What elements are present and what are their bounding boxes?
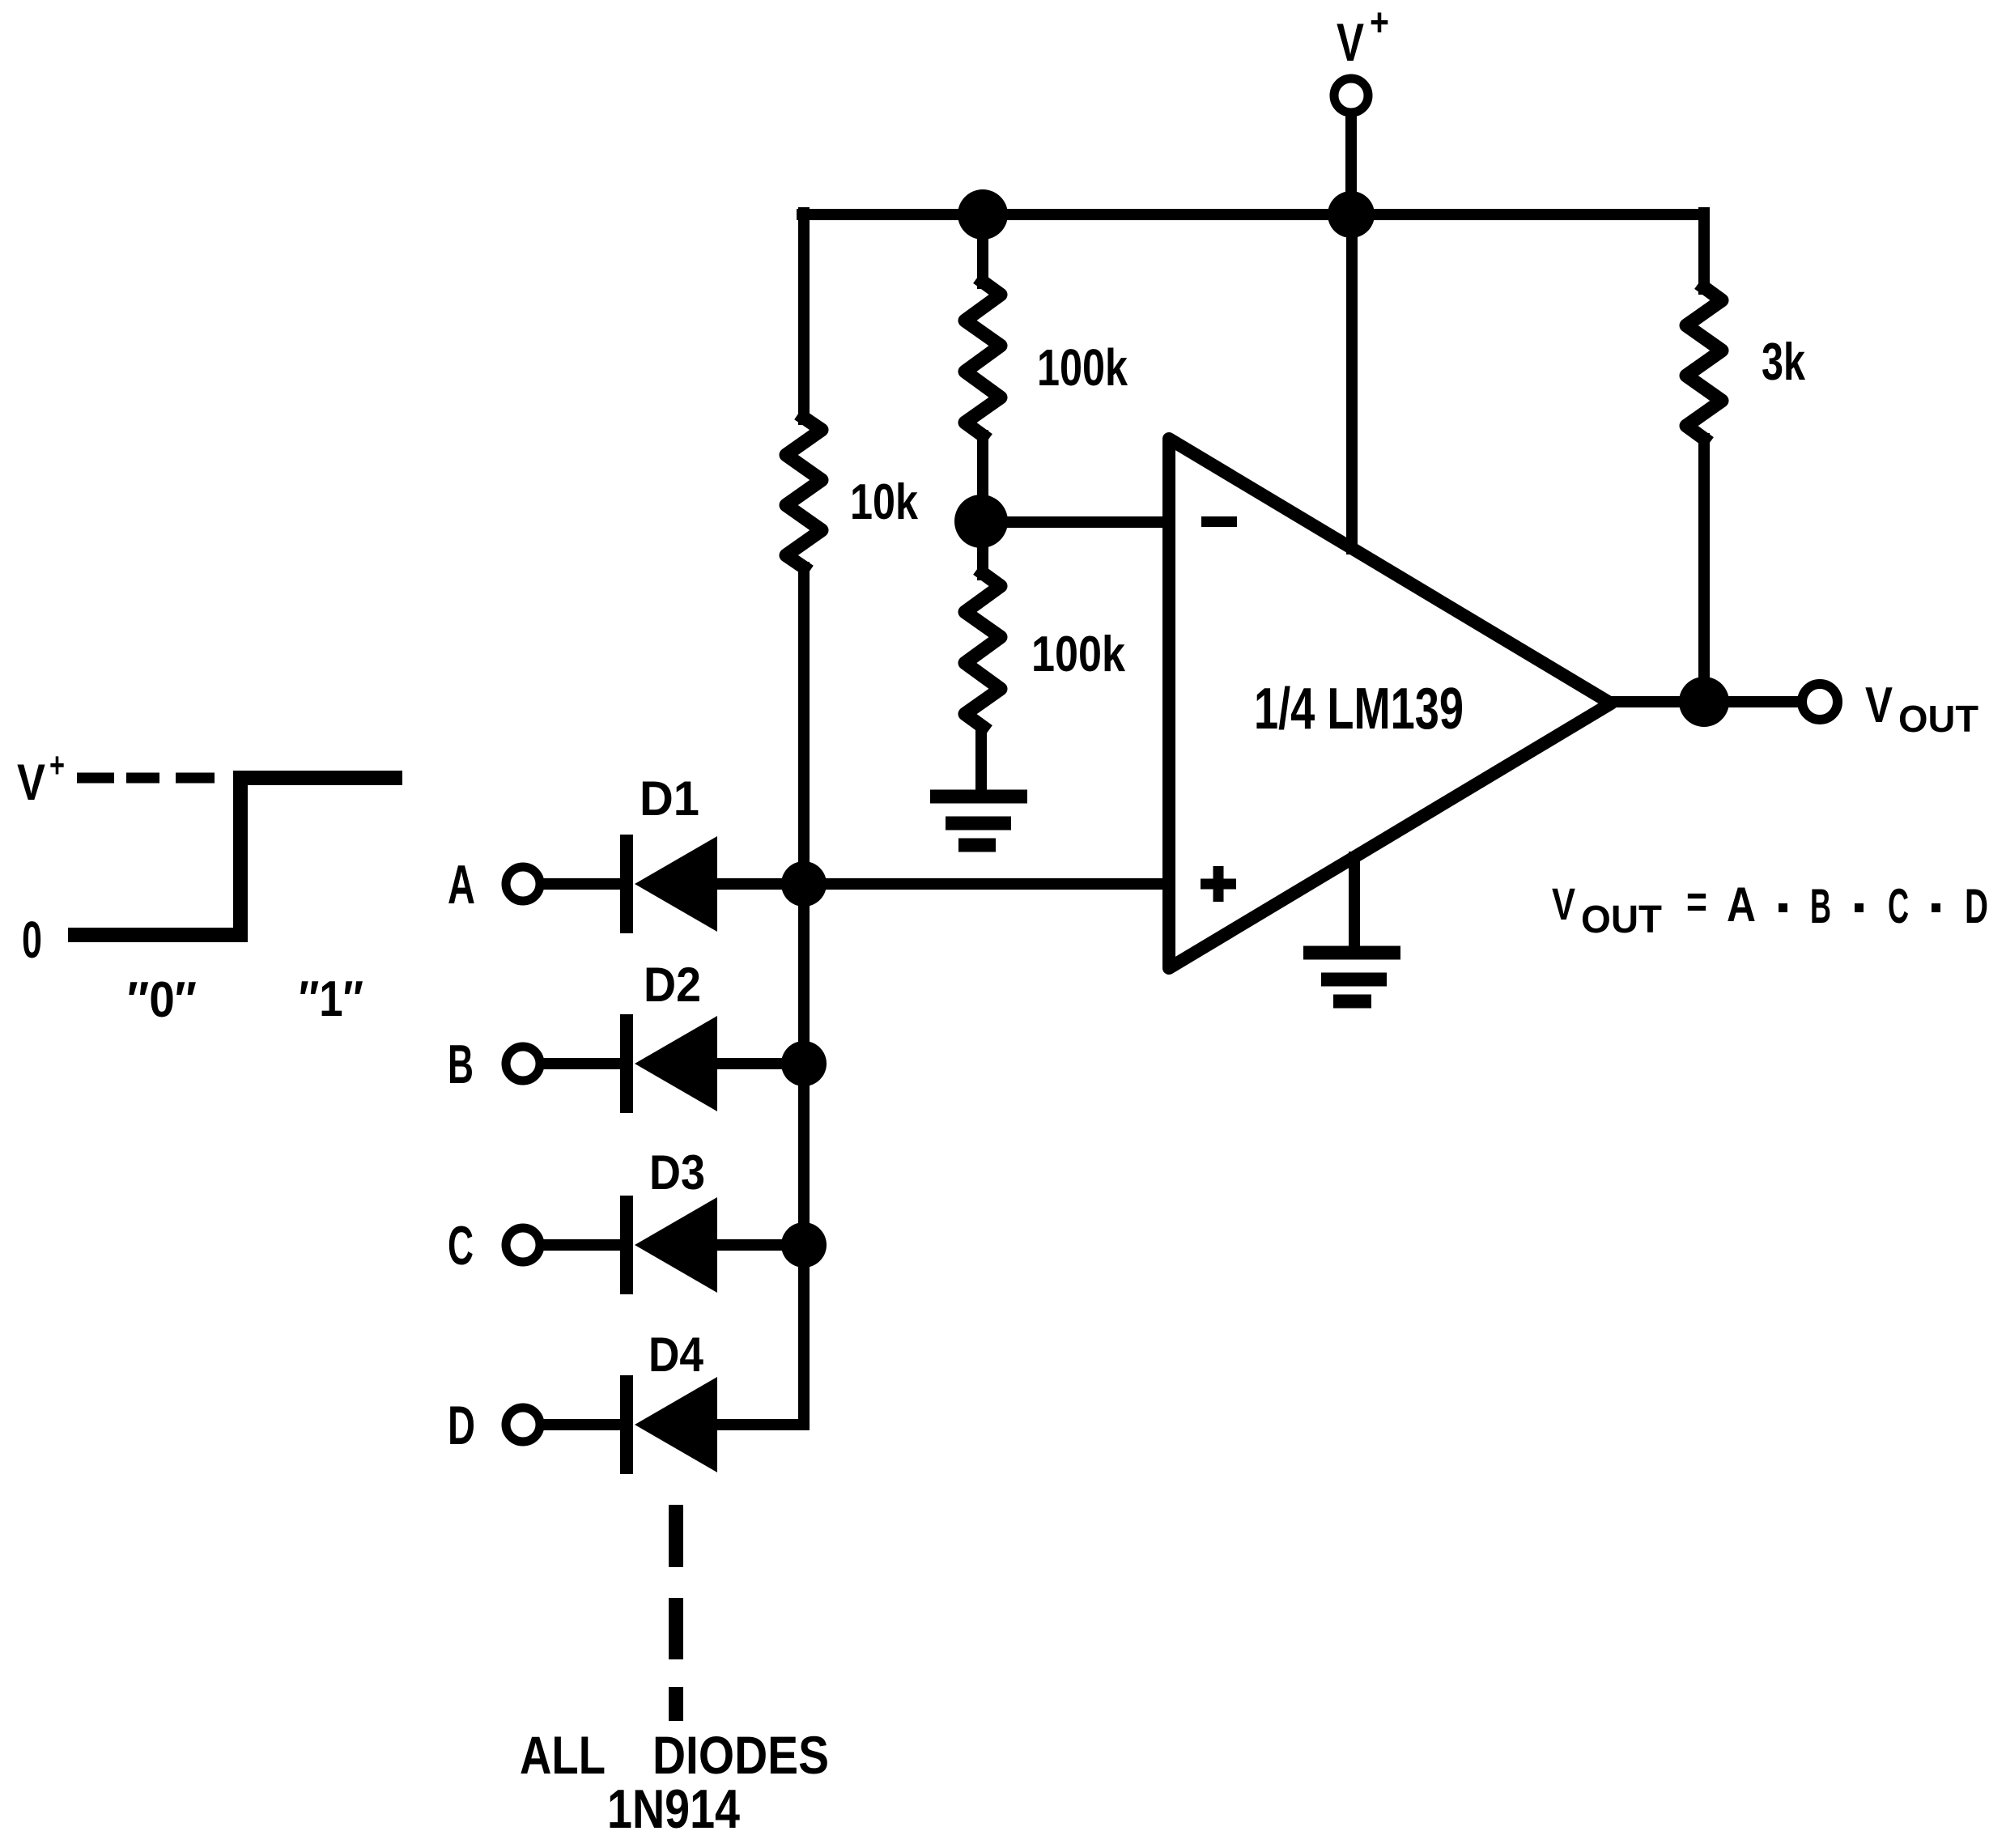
wire dash segment 2: [669, 1598, 683, 1659]
wire B to D2: [547, 1058, 623, 1069]
svg-text:B: B: [1810, 879, 1831, 933]
diode D2: [620, 1014, 717, 1113]
wire input bus vertical (lower lead of 10k to diode bus): [798, 567, 810, 1425]
svg-text:C: C: [1888, 879, 1909, 933]
svg-text:+: +: [49, 746, 65, 785]
svg-text:D4: D4: [648, 1328, 704, 1382]
svg-text:D2: D2: [644, 958, 701, 1012]
wire 3k to output node: [1698, 439, 1710, 702]
resistor R3 100k: [965, 573, 1001, 727]
diode D3: [620, 1196, 717, 1294]
wire D to D4: [547, 1419, 623, 1430]
svg-text:D: D: [1965, 879, 1988, 933]
wire top rail: [802, 209, 1704, 220]
svg-text:A: A: [448, 854, 475, 916]
svg-text:A: A: [1727, 877, 1756, 932]
svg-text:″0″: ″0″: [127, 972, 197, 1028]
node A junction: [781, 861, 827, 907]
svg-text:=: =: [1686, 876, 1707, 927]
svg-text:DIODES: DIODES: [652, 1725, 829, 1785]
input terminal A: [506, 867, 540, 901]
svg-text:OUT: OUT: [1898, 698, 1978, 740]
svg-text:OUT: OUT: [1581, 899, 1662, 941]
svg-text:V: V: [17, 754, 45, 811]
node B junction: [781, 1041, 827, 1086]
svg-text:V: V: [1865, 678, 1893, 733]
wire V+ pin of op-amp: [1346, 215, 1358, 549]
op-amp minus input symbol: [1201, 516, 1237, 527]
svg-text:+: +: [1370, 2, 1389, 45]
waveform dashed V+ level dash 3: [176, 773, 215, 784]
svg-text:1/4 LM139: 1/4 LM139: [1254, 677, 1464, 741]
svg-text:D1: D1: [640, 771, 699, 826]
wire D3 to bus: [717, 1239, 804, 1251]
node output junction: [1679, 677, 1729, 727]
node C junction: [781, 1222, 827, 1268]
wire D2 to bus: [717, 1058, 804, 1069]
svg-text:ALL: ALL: [520, 1725, 606, 1785]
input terminal D: [506, 1408, 540, 1442]
svg-text:100k: 100k: [1031, 627, 1125, 682]
ground (op-amp): [1303, 953, 1400, 1001]
resistor R2 100k: [965, 282, 1001, 435]
resistor R2 100k upper lead: [977, 215, 988, 283]
terminal VOUT: [1802, 684, 1838, 720]
resistor R4 3k: [1686, 287, 1722, 439]
input terminal B: [506, 1047, 540, 1081]
wire ground pin of op-amp: [1349, 857, 1360, 949]
resistor R4 3k upper lead: [1698, 213, 1710, 289]
node top-100k junction: [958, 189, 1008, 240]
wire between 100k resistors: [977, 435, 988, 575]
op-amp U1 triangle: [1169, 439, 1611, 968]
svg-text:10k: 10k: [850, 474, 918, 530]
waveform dashed V+ level dash 1: [77, 773, 114, 784]
wire dash segment 1: [669, 1505, 683, 1567]
wire 100k to ground: [975, 727, 987, 792]
svg-text:1N914: 1N914: [607, 1778, 740, 1840]
svg-text:V: V: [1337, 12, 1364, 72]
wire output: [1611, 696, 1796, 707]
ground (below 100k divider): [930, 797, 1027, 845]
svg-text:D3: D3: [649, 1145, 705, 1200]
wire input bus vertical (upper lead of 10k): [798, 213, 810, 419]
svg-text:C: C: [448, 1215, 474, 1277]
node divider junction: [954, 495, 1008, 548]
svg-text:3k: 3k: [1762, 332, 1806, 391]
wire dashed (all diodes callout): [669, 1505, 683, 1721]
resistor R1 10k: [786, 418, 822, 567]
V+ terminal: [1334, 79, 1368, 113]
wire C to D3: [547, 1239, 623, 1251]
svg-text:0: 0: [22, 911, 42, 969]
svg-text:″1″: ″1″: [299, 971, 363, 1027]
diode D4: [620, 1375, 717, 1474]
wire dash segment 3: [669, 1687, 683, 1721]
wire D1 to noninverting input: [717, 878, 1169, 890]
waveform step trace: [68, 778, 402, 935]
svg-text:V: V: [1552, 878, 1575, 929]
node V+ junction: [1328, 191, 1375, 238]
svg-text:B: B: [448, 1034, 474, 1095]
svg-text:D: D: [448, 1395, 475, 1456]
waveform step graphic: [68, 778, 402, 935]
wire to inverting input: [981, 516, 1169, 528]
svg-text:100k: 100k: [1037, 338, 1128, 397]
wire V+ drop: [1345, 119, 1357, 215]
wire D4 to bus corner: [717, 1419, 804, 1430]
op-amp plus input symbol: [1201, 866, 1236, 902]
diode D1: [620, 835, 717, 933]
wire A to D1: [547, 878, 623, 890]
waveform dashed V+ level dash 2: [126, 773, 159, 784]
input terminal C: [506, 1228, 540, 1262]
